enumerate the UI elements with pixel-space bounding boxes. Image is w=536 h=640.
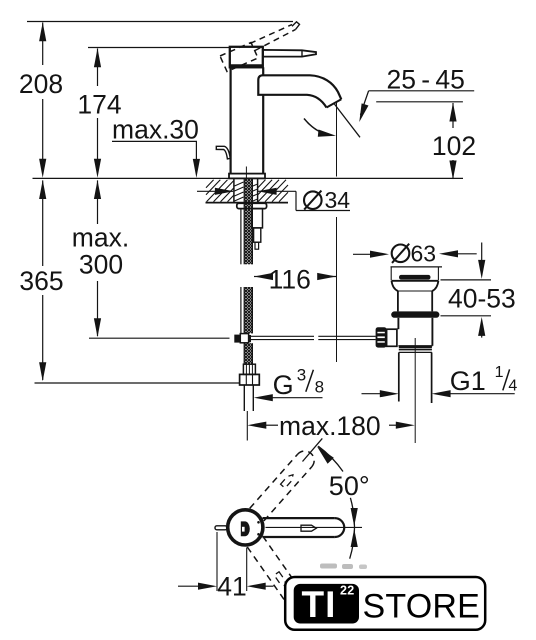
label G1 1/4 [362,364,518,397]
dimension 102 [432,103,476,180]
drain flange [392,280,439,282]
wire 365 bottom reference line [35,382,241,384]
threaded stud [252,209,262,228]
drain centerline [414,338,416,443]
svg-text:TI: TI [302,584,337,625]
flexible braided hose [244,179,252,364]
pop-up knob on body [216,146,230,159]
raised lever tip outline [292,22,300,30]
svg-text:max.180: max.180 [279,411,381,441]
wire reference line 174 level [88,47,230,49]
hose end collar [243,364,255,374]
wire spout outlet level reference [376,101,463,103]
svg-text:116: 116 [269,265,311,295]
screw dots [257,521,260,524]
dimension 50 degree arc [317,446,370,559]
faucet body circle (top view) [228,510,263,545]
counter hatching right [258,180,288,202]
dimension max.180 [247,411,414,441]
dimension 174 [77,48,121,178]
spout [263,75,342,99]
svg-text:max.30: max.30 [112,115,199,145]
svg-text:300: 300 [79,250,123,280]
svg-text:208: 208 [19,69,63,99]
wire spout tip projection line [336,102,338,177]
wire counter top line [33,177,464,179]
drain plug [399,275,431,280]
hose pipe end [243,385,245,411]
svg-text:G1: G1 [450,366,486,396]
lever top view solid [263,518,345,537]
dimension 116 [254,265,336,295]
drain knurled knob [376,327,387,347]
wire lever axis extension line (horizontal) [266,526,363,528]
svg-text:50°: 50° [329,471,370,501]
drain knob stem [387,329,397,346]
counter hatching left [206,180,234,202]
svg-text:365: 365 [19,266,63,296]
mounting washer [237,203,267,208]
lever handle raised (dashed) [220,25,296,72]
lever slot notch [301,525,316,531]
svg-text:102: 102 [432,131,476,161]
wire top reference line (lever raised tip level) [27,21,293,23]
svg-text:1: 1 [495,364,504,381]
water stream direction line [334,104,360,138]
svg-text:25 - 45: 25 - 45 [387,65,465,95]
lever top view raised (dashed up) [250,447,318,521]
svg-text:G: G [273,370,294,400]
drain o-ring seal [391,311,439,317]
lever handle (solid, horizontal) [263,50,316,57]
dimension max.30 (deck thickness) [112,115,200,178]
svg-text:34: 34 [325,187,351,213]
svg-text:STORE: STORE [363,588,481,626]
svg-text:22: 22 [340,584,355,598]
lever top view rotated down (dashed) [247,536,309,614]
label G 3/8 [254,366,324,402]
dimension 40-53 [441,243,516,338]
dimension diameter 34 [197,187,350,213]
dimension diameter 63 [353,241,477,281]
pop-up rod tee clamp [234,335,240,343]
lever cartridge D-mark [241,521,250,536]
horizontal pop-up linkage rod [250,335,314,337]
svg-text:8: 8 [315,378,324,397]
spout outlet face [327,99,342,107]
wire max.300 bottom reference (pop-up rod level) [89,337,230,339]
svg-text:40-53: 40-53 [448,284,516,314]
svg-text:3: 3 [297,366,306,385]
drain body [397,318,399,329]
TI STORE logo [285,577,485,630]
dimension 208 [19,22,63,178]
mounting shank in hole [233,179,235,203]
water rotation arrow [304,119,329,136]
svg-text:4: 4 [508,377,517,394]
base flange [229,174,265,179]
dimension max.300 (hose length) [72,180,230,338]
drain threaded collar [399,346,432,348]
dimension 25 - 45 (aerator angle) [359,65,474,123]
faucet body column [230,67,232,174]
dimension 365 [19,180,240,383]
dimension 41 [178,532,274,602]
cartridge cap [230,47,263,68]
svg-text:max.: max. [72,223,129,253]
drain tail pipe [398,352,400,401]
faucet body centerline [245,167,247,179]
hose hex nut G3/8 [240,374,260,385]
svg-text:63: 63 [411,241,437,267]
drain neck [397,291,399,311]
svg-text:41: 41 [217,572,246,602]
wire extension line along raised lever axis [303,438,323,461]
pop-up rod pin (top view) [215,526,227,530]
counter slab bottom line [206,202,289,204]
faded print remnants [320,564,337,569]
pop-up vertical rod [240,209,242,265]
